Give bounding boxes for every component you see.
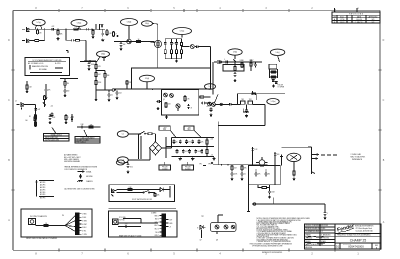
svg-text:140: 140 [25, 120, 28, 122]
capacitor C28 filter- [176, 149, 179, 154]
wire tap3 to connector [96, 89, 112, 91]
svg-text:33K: 33K [107, 75, 110, 77]
tone branch tail 3 [176, 55, 178, 59]
node R3 top [57, 29, 58, 30]
node rail- col5 [201, 156, 202, 157]
capacitor C22 [80, 124, 85, 128]
svg-text:5.9(b): 5.9(b) [233, 52, 238, 54]
boxed label -16V [184, 126, 201, 138]
capacitor C38 [241, 172, 246, 177]
capacitor C40 inside box [255, 172, 261, 177]
signal chart box 1 [44, 133, 70, 141]
svg-text:CHAMP 25: CHAMP 25 [350, 239, 367, 243]
capacitor C45 [127, 163, 130, 168]
svg-text:33K: 33K [244, 168, 247, 170]
svg-text:BLK 2: BLK 2 [155, 219, 159, 221]
svg-text:B2 6PS: B2 6PS [40, 194, 45, 196]
svg-text:R1: R1 [29, 116, 31, 118]
svg-text:47K: 47K [74, 26, 77, 28]
resistor R29b right [43, 95, 45, 101]
svg-text:BLU 5: BLU 5 [155, 229, 159, 231]
wire vert x213 to opamp [212, 62, 214, 95]
resistor R17 below bus [250, 62, 252, 67]
wire U1 to power amp a [205, 96, 211, 98]
resistor R41 [241, 165, 246, 171]
svg-text:R E V I S I O N S: R E V I S I O N S [349, 14, 364, 16]
wire Q out [253, 103, 266, 105]
panel2 jack box [113, 219, 119, 225]
wire R35 tail [250, 68, 252, 71]
ground below C18 [44, 97, 47, 100]
potentiometer VR5 [43, 101, 46, 108]
wire driver bus [114, 88, 213, 90]
node B+ tap 1 [95, 70, 96, 71]
svg-text:REPRODUCTION PROHIBITED: REPRODUCTION PROHIBITED [262, 252, 282, 254]
svg-text:.047: .047 [37, 109, 40, 111]
svg-text:5.8(d): 5.8(d) [127, 22, 132, 24]
wire xfmr horiz [218, 125, 265, 127]
svg-text:6 YEL: 6 YEL [82, 231, 86, 233]
svg-text:BLK = HOT WHT = NEUT: BLK = HOT WHT = NEUT [64, 157, 81, 159]
capacitor C20 chain [34, 107, 37, 112]
wire R26 top [26, 81, 28, 84]
wire bridge out down [165, 148, 167, 158]
svg-text:5.9(a): 5.9(a) [180, 31, 185, 33]
ground below R6 [91, 36, 94, 39]
node reverb pot [234, 61, 235, 62]
leader reverb oval [234, 55, 237, 62]
node in box b [265, 169, 266, 170]
ground below C36 [245, 114, 248, 117]
node after C9 [202, 46, 203, 47]
svg-text:.022: .022 [51, 26, 54, 28]
capacitor C34b below U2 [210, 108, 213, 113]
ground chain bottom [94, 98, 97, 101]
node branch lower [65, 29, 66, 30]
ground below R42 [292, 178, 295, 181]
resistor R26 [26, 84, 32, 90]
leader volume control [128, 26, 130, 39]
resistor R29 [65, 114, 69, 121]
node after R5 [80, 29, 81, 30]
ground tone stack [175, 60, 178, 63]
capacitor C19 [64, 89, 70, 94]
capacitor C15 right of U1 [201, 102, 206, 105]
svg-text:OUT: OUT [169, 219, 172, 221]
svg-text:+V: +V [169, 226, 171, 228]
svg-text:.1: .1 [68, 117, 69, 119]
callout oval SPEAKER [287, 153, 301, 161]
panel2 pin labels left [154, 215, 162, 237]
wire to xfmr [264, 104, 266, 125]
capacitor C42 top [274, 152, 280, 157]
resistor R19 in U1 [165, 102, 167, 108]
svg-text:TO PCB: TO PCB [119, 220, 124, 222]
zone numbers top [35, 8, 359, 10]
wire bent with R [243, 108, 249, 112]
svg-text:5.8(e): 5.8(e) [145, 23, 149, 25]
node mid col2 [180, 146, 181, 147]
svg-text:1K: 1K [176, 141, 178, 143]
footswitch wire b [117, 192, 144, 194]
wire pa mid rail [237, 93, 285, 95]
ground ladder [272, 85, 275, 88]
svg-text:TO SPKR: TO SPKR [278, 86, 285, 88]
wire branch lower run [66, 29, 71, 40]
boxed label +16V [159, 126, 176, 138]
resistor R1 grid [37, 29, 39, 35]
wire supply rail negative [172, 156, 215, 158]
node bus c [175, 89, 176, 90]
panel2 wire a [118, 222, 158, 224]
svg-text:+40: +40 [51, 106, 54, 108]
resistor R24 dropper [95, 79, 101, 87]
resistor R34b [241, 62, 243, 68]
symbol legend arrow [78, 170, 92, 173]
capacitor C43 [268, 190, 275, 195]
capacitor C6 treble [164, 41, 167, 46]
capacitor C5 on lower run [88, 60, 93, 63]
node rail- col2 [183, 156, 184, 157]
svg-text:.047: .047 [234, 168, 237, 170]
resistor R45 footswitch [154, 193, 159, 198]
svg-text:Q7: Q7 [200, 240, 202, 242]
svg-text:1 RED: 1 RED [82, 214, 86, 216]
resistor R28b chain [35, 121, 37, 127]
svg-text:R13 4W: R13 4W [278, 85, 284, 87]
wire speaker drop [293, 162, 295, 170]
jack J3 preamp out [217, 60, 222, 63]
capacitor C29 filter- [182, 149, 188, 154]
wire bridge +out [162, 147, 167, 149]
wire tone branch 2 [171, 39, 173, 42]
svg-text:5.7(c): 5.7(c) [37, 22, 42, 24]
wire R18 drop [126, 85, 128, 89]
transistor Q2 [248, 99, 253, 104]
wire AC hot lead [128, 133, 140, 135]
svg-text:4.7K: 4.7K [187, 99, 190, 101]
svg-text:25-0000: 25-0000 [185, 168, 191, 170]
wire feedback loop [223, 65, 244, 72]
node B+ tap 3 [95, 86, 96, 87]
callout oval AC HOT [117, 131, 128, 137]
svg-text:4 WHT: 4 WHT [82, 224, 87, 226]
panel box 1 outline [21, 209, 92, 237]
svg-text:150K: 150K [52, 117, 56, 119]
callout oval REVERB control [228, 49, 242, 55]
node amp in a [221, 164, 222, 165]
resistor R28 chain [35, 113, 37, 121]
callout oval PRESENCE control [270, 49, 284, 55]
input jack J2 [22, 38, 34, 43]
node feedback left [237, 104, 238, 105]
mains pair verticals [139, 134, 142, 159]
ground below C19 [63, 94, 66, 97]
symbol legend ground sym [79, 174, 94, 178]
wire B+ entry [84, 60, 96, 62]
leader from oval to input wire [35, 26, 42, 30]
capacitor C3 series [85, 28, 90, 31]
node C12 top [116, 88, 117, 89]
connector P1 to power amp [112, 89, 116, 91]
svg-text:220K: 220K [98, 82, 102, 84]
capacitor C8 bass [175, 41, 178, 46]
node bus a [152, 89, 153, 90]
wire bridge to rail+ [166, 147, 172, 149]
svg-text:Q8: Q8 [216, 240, 218, 242]
resistor R22 dropper [95, 63, 101, 70]
bridge rectifier CR2 diamond [150, 142, 162, 156]
svg-text:150K: 150K [271, 192, 275, 194]
node rail+ col4 [192, 137, 193, 138]
svg-text:.01: .01 [111, 95, 113, 97]
node aux right [99, 126, 100, 127]
tone branch tail 1 [164, 55, 166, 59]
wire tap runs right [60, 78, 78, 80]
capacitor C35 [228, 103, 233, 106]
resistor R20 in U1 [184, 95, 186, 102]
ground below C21 [48, 121, 51, 124]
svg-text:.01: .01 [244, 174, 246, 176]
wire C36 stub [246, 104, 248, 108]
wire J4 chain vertical [35, 105, 37, 128]
thermistor RT1 [34, 114, 36, 123]
connector ring on amp line [220, 103, 222, 105]
wire rail mid [166, 146, 214, 148]
wire tone stack bottom rail [165, 58, 181, 60]
wire tone branch 3 [176, 39, 178, 42]
svg-text:1.5K: 1.5K [109, 33, 112, 35]
node mid col1 [173, 146, 174, 147]
footswitch wire a [117, 189, 161, 191]
svg-text:B3 7PS: B3 7PS [40, 198, 45, 200]
pinout transistor Q7 [197, 225, 205, 238]
pinout transistor Q9 [224, 225, 228, 229]
wire aux row [77, 126, 100, 128]
svg-text:2.2K: 2.2K [29, 87, 32, 89]
LED CR7 [160, 188, 166, 192]
svg-text:.047: .047 [98, 74, 101, 76]
resistor R35 [250, 60, 256, 68]
wire tone stack top rail [165, 38, 181, 40]
ground below R3 [56, 37, 59, 40]
wire tp lead [125, 162, 128, 164]
resistor R12 tone [164, 49, 166, 55]
title block right rows [335, 233, 381, 243]
svg-text:J4: J4 [15, 101, 17, 103]
wire into amp row [213, 164, 268, 166]
wire ladder right rail [277, 69, 279, 78]
pinout transistor Q8 [215, 225, 219, 229]
ext speaker bracket [308, 147, 319, 174]
resistor R27 [64, 79, 70, 89]
leader presence oval [278, 56, 280, 63]
svg-text:3 GRN: 3 GRN [82, 220, 86, 222]
test point TP2 [208, 162, 213, 165]
node B+ tap 2 [95, 78, 96, 79]
capacitor C17 [108, 93, 113, 98]
wire R25 tail [104, 80, 106, 90]
signal chart box 2 [75, 137, 100, 144]
wire C18 tail [45, 93, 47, 97]
svg-text:47K: 47K [258, 174, 261, 176]
node amp in b [227, 164, 228, 165]
svg-text:3.3K: 3.3K [80, 124, 83, 126]
wire B+ chain vertical [95, 61, 97, 63]
capacitor C9 [195, 45, 200, 48]
node after C3 [91, 29, 92, 30]
boxed label CR6 [182, 162, 193, 171]
legend rows [39, 181, 54, 200]
svg-text:100K: 100K [91, 64, 95, 66]
resistor R5 series [72, 28, 81, 30]
label ladder [278, 85, 285, 89]
svg-text:RED 1: RED 1 [155, 215, 159, 217]
node end of bus [261, 61, 262, 62]
capacitor C24 filter+ [179, 140, 182, 145]
callout oval SPEAKER OUT [267, 99, 279, 105]
node mid col5 [198, 146, 199, 147]
tone branch lower 4 [181, 47, 183, 49]
svg-text:P/N 049: P/N 049 [185, 166, 191, 168]
node R27 top [64, 78, 65, 79]
node before V2 [147, 41, 148, 42]
capacitor C11 [225, 61, 230, 64]
panel2 wire c [118, 226, 141, 228]
wire bottom rail drop [324, 204, 326, 211]
wire bridge out up [165, 137, 167, 148]
callout small TP [116, 160, 124, 165]
svg-text:5.9(d): 5.9(d) [145, 78, 150, 80]
switch S1 power [140, 131, 146, 134]
signal chart box 2 leader [84, 130, 87, 137]
wire U1 to power amp b [206, 102, 211, 104]
footswitch box outline [109, 185, 175, 202]
callout oval POWER AMP IN [205, 84, 216, 90]
wire box bottom left drop [248, 185, 250, 212]
resistor R8 right [113, 31, 115, 37]
capacitor C2 lower [70, 39, 75, 42]
capacitor C1 series [51, 28, 56, 31]
plate resistor R9 with B+ riser [95, 24, 97, 29]
wire row2 bus [114, 41, 155, 43]
wire jack2 to riser [40, 40, 45, 42]
stage2 plate structure [100, 24, 104, 29]
ground stage2 [101, 39, 104, 42]
svg-text:G10: G10 [130, 167, 133, 169]
callout oval MASTER control [140, 75, 155, 82]
pinout box lead [218, 215, 223, 223]
zone letters right [383, 40, 385, 224]
node x131 y66 [131, 67, 132, 68]
capacitor C12 [116, 91, 122, 96]
wire U2 out [215, 103, 229, 105]
zone tick marks [59, 9, 335, 252]
transistor pair U2 input [208, 95, 218, 107]
capacitor C20b right [51, 113, 54, 118]
leader from volume oval [78, 26, 80, 29]
resistor R3 [57, 29, 59, 35]
capacitor C39 [251, 147, 257, 152]
svg-text:TP1: TP1 [199, 164, 202, 166]
tone branch lower 2 [171, 45, 173, 49]
tick on mid rail [252, 91, 254, 94]
svg-text:5.10: 5.10 [209, 86, 212, 88]
node R34 top [234, 61, 235, 62]
svg-text:OUTPUT 25W 8 OHM: OUTPUT 25W 8 OHM [45, 140, 60, 142]
node rail- col3 [189, 156, 190, 157]
node bottom rail [273, 203, 274, 204]
ground below R29 [64, 121, 67, 124]
wire V2A grid [148, 42, 155, 43]
leader bright oval [97, 57, 100, 62]
svg-text:UNLESS OTHERWISE SPECIFIED: UNLESS OTHERWISE SPECIFIED [305, 225, 328, 227]
wire C45 link [127, 162, 129, 165]
node rail+ col2 [180, 137, 181, 138]
capacitor C18 [45, 88, 51, 93]
svg-text:E: E [197, 228, 198, 230]
diode CR1 [71, 114, 73, 122]
capacitor C44 [324, 211, 328, 216]
panel2 texts [119, 217, 125, 221]
node bus b [161, 89, 162, 90]
note block small [64, 154, 81, 164]
ground below U1 [165, 116, 168, 119]
resistor R37 ladder [272, 76, 276, 78]
driver IC U1 box [161, 90, 198, 115]
svg-text:470: 470 [188, 141, 191, 143]
svg-text:.022: .022 [185, 151, 188, 153]
ground below C37 [230, 178, 233, 181]
resistor R40 [231, 165, 237, 171]
svg-text:TP2: TP2 [208, 164, 211, 166]
wire feedback drop left [237, 94, 239, 105]
voltage chart box [25, 51, 70, 76]
panel1 jack box [29, 219, 36, 225]
company address [355, 225, 373, 233]
resistor R13 tone [171, 49, 173, 55]
ground below C16 [87, 68, 90, 71]
wire AC neutral lead [128, 159, 150, 161]
resistor R7 stage2 [106, 29, 108, 36]
panel2 wire b [123, 218, 141, 220]
svg-text:2 BLK: 2 BLK [82, 217, 86, 219]
wire ladder left rail [269, 69, 271, 78]
potentiometer VR4 mid [190, 45, 194, 49]
svg-text:4.7K: 4.7K [98, 66, 101, 68]
wire to mixer node [200, 46, 211, 48]
node mid col4 [192, 146, 193, 147]
svg-text:D1: D1 [336, 244, 340, 248]
wire spkr line to bracket [281, 146, 311, 148]
svg-text:GROUND: GROUND [86, 176, 94, 178]
svg-text:10K: 10K [123, 44, 126, 46]
ground below C45 [126, 171, 129, 174]
svg-text:FOOT SWITCH P/N 051 353: FOOT SWITCH P/N 051 353 [132, 199, 152, 201]
node rail- col4 [195, 156, 196, 157]
svg-text:5.9(c): 5.9(c) [276, 52, 281, 54]
notes list [257, 217, 310, 243]
footswitch vert [169, 186, 171, 198]
svg-text:680: 680 [277, 154, 280, 156]
capacitor C26 filter+ [191, 140, 194, 145]
capacitor C5 to ground [120, 42, 126, 47]
svg-text:B+ 325V: B+ 325V [55, 63, 61, 65]
note 2 ohm load [351, 153, 366, 161]
wire switch to fuse [146, 133, 149, 135]
svg-text:WHT 4: WHT 4 [154, 225, 159, 227]
dashes to note [321, 154, 337, 156]
